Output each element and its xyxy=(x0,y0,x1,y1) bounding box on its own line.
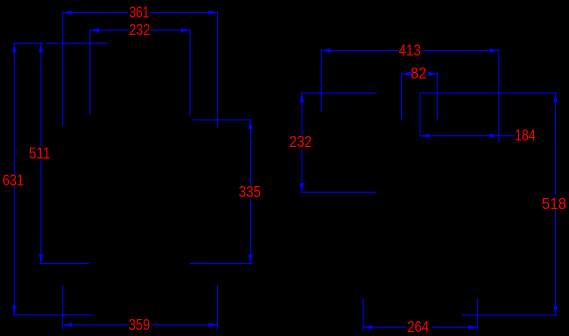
arrowhead 335 down xyxy=(248,254,252,263)
dim 631 bottom extension line xyxy=(13,314,93,316)
dim 335 line lower segment xyxy=(249,198,251,263)
dim 361 extension line left xyxy=(62,11,64,126)
arrowhead 264 right xyxy=(468,325,477,329)
dim 518 top extension line xyxy=(420,92,557,94)
dim 335 top extension line xyxy=(192,119,251,121)
arrowhead 82 right xyxy=(428,72,437,76)
dim 232 right-shape line upper segment xyxy=(301,93,303,136)
dim 264 extension line left xyxy=(362,298,364,331)
dim 511 bottom extension line xyxy=(40,263,89,265)
dim 232 left-shape line right segment xyxy=(151,29,190,31)
arrowhead 511 up xyxy=(39,43,43,52)
arrowhead 335 up xyxy=(248,120,252,129)
dim 359 extension line left xyxy=(62,285,64,329)
svg-text:232: 232 xyxy=(129,22,150,39)
arrowhead 232 right-shape down xyxy=(300,183,304,192)
arrowhead 361 right xyxy=(208,10,217,14)
arrowhead 518 down xyxy=(553,306,557,315)
dim 413 extension line left xyxy=(320,49,322,112)
dim 232 right-shape bottom extension line xyxy=(301,191,376,193)
arrowhead 184 left xyxy=(420,134,429,138)
dim 518 line lower segment xyxy=(555,210,557,315)
dim 631 line upper segment xyxy=(13,43,15,174)
dim 82 line right segment xyxy=(429,73,438,75)
dim 511 line lower segment xyxy=(40,160,42,263)
dim 335 bottom extension line xyxy=(190,263,252,265)
dim 232 left-shape extension line right xyxy=(189,29,191,116)
svg-text:335: 335 xyxy=(239,184,261,201)
dim 82 line left segment xyxy=(402,73,410,75)
dim 361 line left segment xyxy=(63,12,129,14)
dim 232 left-shape extension line left xyxy=(89,29,91,115)
dim 264 line right segment xyxy=(432,326,478,328)
arrowhead 232 right-shape up xyxy=(300,93,304,102)
svg-text:518: 518 xyxy=(542,196,567,213)
svg-text:413: 413 xyxy=(399,43,421,60)
arrowhead 518 up xyxy=(553,93,557,102)
dim 413 extension line right xyxy=(498,49,500,142)
dim 232 right-shape top extension line xyxy=(301,92,377,94)
svg-text:361: 361 xyxy=(129,4,149,21)
arrowhead 511 down xyxy=(39,254,43,263)
svg-text:264: 264 xyxy=(407,319,429,336)
svg-text:631: 631 xyxy=(3,172,24,189)
dim 264 extension line right xyxy=(476,298,478,331)
dim 82 extension line right xyxy=(436,73,438,121)
dim 361 extension line right xyxy=(217,11,219,128)
dim 359 line right segment xyxy=(152,324,218,326)
dim 413 line right segment xyxy=(423,50,499,52)
arrowhead 359 left xyxy=(63,323,72,327)
dim 631 top extension line xyxy=(13,42,43,44)
arrowhead 359 right xyxy=(208,323,217,327)
arrowhead 82 left xyxy=(402,72,411,76)
arrowhead 413 left xyxy=(321,48,330,52)
arrowhead 631 up xyxy=(12,43,16,52)
dim 359 extension line right xyxy=(217,285,219,329)
arrowhead 184 right xyxy=(490,134,499,138)
dim 335 line upper segment xyxy=(249,120,251,186)
svg-text:232: 232 xyxy=(289,134,312,151)
dim 413 line left segment xyxy=(321,50,398,52)
dim 631 line lower segment xyxy=(13,187,15,315)
arrowhead 232 left-shape right xyxy=(181,28,190,32)
dim 361 line right segment xyxy=(151,12,218,14)
dim 82 extension line left xyxy=(401,73,403,121)
dim 359 line left segment xyxy=(63,324,129,326)
dim 232 right-shape line lower segment xyxy=(301,149,303,193)
arrowhead 264 left xyxy=(363,325,372,329)
dim 184 extension line left xyxy=(419,93,421,137)
dim 184 line with leader xyxy=(420,135,515,137)
svg-text:511: 511 xyxy=(29,145,50,162)
svg-text:359: 359 xyxy=(129,317,150,334)
dim 511 top extension line xyxy=(46,42,107,44)
svg-text:184: 184 xyxy=(515,127,536,144)
svg-text:82: 82 xyxy=(410,65,426,82)
dim 511 line upper segment xyxy=(40,43,42,147)
arrowhead 232 left-shape left xyxy=(90,28,99,32)
arrowhead 413 right xyxy=(490,48,499,52)
dim 264 line left segment xyxy=(363,326,407,328)
arrowhead 631 down xyxy=(12,306,16,315)
dim 518 bottom extension line xyxy=(462,314,557,316)
dim 518 line upper segment xyxy=(555,93,557,198)
dim 232 left-shape line left segment xyxy=(90,29,129,31)
arrowhead 361 left xyxy=(63,10,72,14)
